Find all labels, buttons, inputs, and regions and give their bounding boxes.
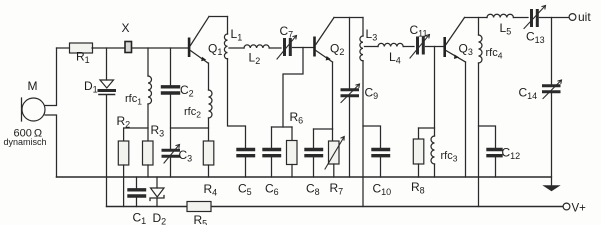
svg-text:C1: C1 [133, 211, 147, 226]
svg-text:Q2: Q2 [330, 42, 344, 58]
svg-text:C6: C6 [265, 182, 279, 198]
svg-text:C8: C8 [306, 182, 320, 198]
svg-text:C11: C11 [410, 23, 428, 39]
svg-text:dynamisch: dynamisch [4, 137, 47, 147]
svg-text:L4: L4 [389, 50, 401, 66]
svg-text:C13: C13 [526, 30, 545, 46]
svg-text:M: M [28, 79, 38, 93]
svg-text:X: X [122, 21, 130, 35]
svg-text:L5: L5 [500, 21, 512, 37]
svg-text:C9: C9 [365, 86, 379, 102]
svg-text:R2: R2 [117, 114, 131, 130]
svg-text:V+: V+ [572, 203, 587, 215]
svg-text:R7: R7 [330, 181, 344, 197]
svg-text:rfc1: rfc1 [125, 93, 142, 107]
svg-text:Q3: Q3 [459, 42, 473, 58]
svg-text:C3: C3 [179, 148, 193, 164]
svg-text:R4: R4 [204, 182, 218, 198]
svg-text:D2: D2 [153, 211, 167, 225]
svg-text:R3: R3 [151, 123, 165, 139]
svg-text:L2: L2 [249, 51, 261, 67]
svg-text:R6: R6 [290, 110, 304, 126]
svg-text:C14: C14 [519, 86, 538, 102]
svg-text:C7: C7 [280, 24, 294, 40]
svg-text:rfc4: rfc4 [486, 47, 503, 61]
svg-text:C12: C12 [502, 146, 521, 162]
svg-text:R5: R5 [194, 213, 208, 225]
svg-text:L3: L3 [366, 27, 378, 43]
svg-text:L1: L1 [231, 27, 243, 43]
svg-text:C10: C10 [373, 182, 392, 198]
svg-text:C2: C2 [180, 83, 194, 99]
svg-text:rfc2: rfc2 [184, 106, 201, 120]
svg-text:D1: D1 [84, 79, 98, 95]
svg-text:Q1: Q1 [208, 42, 222, 58]
svg-text:rfc3: rfc3 [441, 150, 458, 164]
svg-text:C5: C5 [238, 182, 252, 198]
svg-text:uit: uit [578, 10, 591, 24]
svg-text:R8: R8 [411, 180, 425, 196]
